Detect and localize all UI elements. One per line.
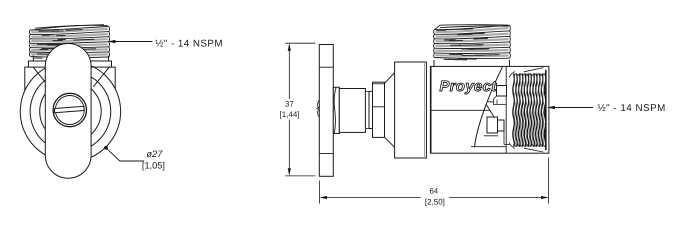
svg-text:[2,50]: [2,50] xyxy=(425,198,445,207)
upper seat block xyxy=(497,86,507,97)
packing mid line xyxy=(373,106,385,108)
leader dot on disc edge xyxy=(104,146,108,150)
dim 64 arrows xyxy=(320,196,549,199)
dim 37 line xyxy=(288,45,290,174)
svg-text:[1,05]: [1,05] xyxy=(142,161,165,171)
dim 37 arrows xyxy=(288,43,291,175)
neck under thread (front view) xyxy=(33,56,108,62)
leader line front thread xyxy=(112,41,153,43)
lever handle (front view) xyxy=(45,44,91,179)
ring connector ticks xyxy=(365,91,369,128)
body chamfer line right xyxy=(93,67,109,87)
handle hub (side view) xyxy=(333,87,339,133)
thread texture (front male thread) xyxy=(31,29,108,55)
lever handle (side view) xyxy=(319,45,333,177)
seat funnel slant xyxy=(486,104,494,117)
dim 37 extension ticks xyxy=(285,43,315,176)
washer ring xyxy=(369,91,373,128)
body internal arc xyxy=(475,67,503,147)
upper seat block mid line xyxy=(488,96,506,105)
collar (front view) xyxy=(28,61,111,67)
flare cone lines xyxy=(385,73,395,147)
screw inner circle xyxy=(55,96,84,125)
packing nut xyxy=(373,82,385,137)
nut inner edge xyxy=(505,66,507,153)
bonnet cylinder (side view) xyxy=(339,89,365,133)
screw slot xyxy=(55,106,85,112)
svg-text:½" - 14 NSPM: ½" - 14 NSPM xyxy=(598,103,666,114)
svg-text:Proyect: Proyect xyxy=(440,79,498,95)
thread texture (side male thread) xyxy=(435,28,508,56)
svg-text:ø27: ø27 xyxy=(146,149,163,159)
lever grip joint lines xyxy=(319,67,333,153)
seat link line xyxy=(496,100,498,105)
dim 64 line xyxy=(321,197,547,199)
valve body (front view) xyxy=(25,67,115,91)
seat square xyxy=(487,117,498,133)
bonnet housing (tall rect) xyxy=(395,62,427,158)
handle disc inner circle xyxy=(40,81,102,143)
leader arrow to front thread xyxy=(108,40,116,43)
dim 64 extension lines xyxy=(319,158,548,204)
handle disc outer circle (dia 27) xyxy=(20,61,120,161)
leader line dia27 xyxy=(106,148,144,161)
valve body + nut outline (side view) xyxy=(431,66,549,153)
packing inner top line xyxy=(373,83,385,85)
body centerline xyxy=(431,109,491,111)
thread shoulder (side) xyxy=(434,60,510,66)
svg-text:½" - 14 NSPM: ½" - 14 NSPM xyxy=(155,38,223,49)
seat under-line and stem xyxy=(484,131,511,145)
handle disc middle circle xyxy=(30,71,111,152)
hub waist curve xyxy=(334,87,336,133)
seat small rect xyxy=(498,120,505,131)
leader line nut thread xyxy=(551,107,593,109)
svg-text:37: 37 xyxy=(285,100,294,109)
leader arrow to nut thread xyxy=(547,106,555,109)
screw outer ring xyxy=(53,93,86,126)
lever hub bump (side) xyxy=(318,100,320,117)
bottom bore line xyxy=(471,146,506,148)
housing inner edge xyxy=(424,62,426,158)
body chamfer line left xyxy=(33,67,49,87)
svg-text:64: 64 xyxy=(429,187,438,196)
body left edge thick xyxy=(430,66,432,153)
thread texture (nut female thread) xyxy=(509,68,543,152)
svg-text:[1,44]: [1,44] xyxy=(279,110,299,119)
